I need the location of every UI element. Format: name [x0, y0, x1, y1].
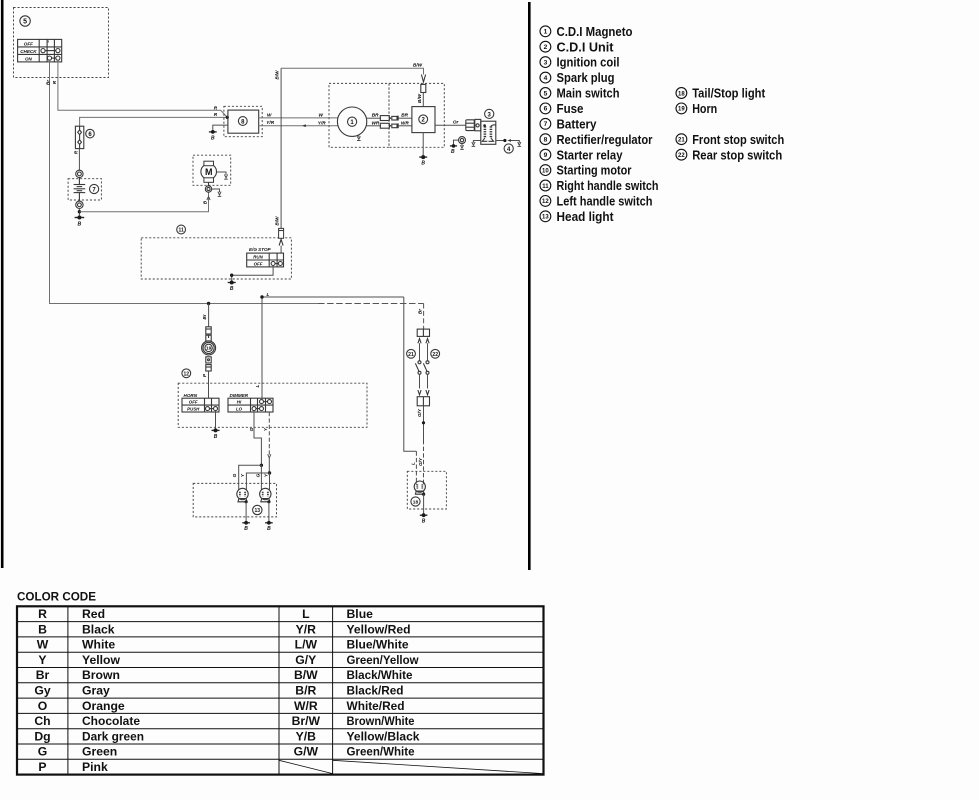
svg-text:Chocolate: Chocolate — [82, 714, 140, 728]
wire horn to switch — [208, 371, 210, 398]
svg-text:10: 10 — [542, 168, 549, 174]
svg-text:9: 9 — [544, 152, 548, 159]
wire battery to starting motor — [79, 192, 208, 212]
svg-text:BR: BR — [372, 113, 379, 118]
head light right bulb — [260, 488, 271, 523]
svg-text:Spark plug: Spark plug — [557, 70, 615, 85]
spark plug gap and hook — [496, 139, 521, 147]
svg-text:Right handle switch: Right handle switch — [557, 178, 659, 193]
svg-text:WR: WR — [372, 120, 380, 125]
svg-text:3: 3 — [544, 59, 548, 66]
wire G to left bulb — [239, 465, 262, 489]
svg-text:R: R — [73, 150, 78, 154]
wire G dimmer low output — [254, 411, 261, 466]
svg-text:Orange: Orange — [82, 699, 125, 713]
arrowhead on Y/R wire — [302, 124, 306, 127]
CDI unit U2 dashed enclosure — [389, 83, 444, 147]
svg-text:White: White — [82, 638, 115, 652]
svg-text:Or: Or — [453, 120, 460, 125]
svg-text:Black/White: Black/White — [347, 668, 413, 682]
wire L to tail light — [404, 297, 417, 451]
svg-text:Starting motor: Starting motor — [557, 163, 632, 178]
ground below CDI — [419, 155, 427, 167]
fuse F6 — [75, 126, 83, 148]
svg-text:B: B — [202, 200, 207, 204]
svg-text:Gray: Gray — [82, 684, 110, 698]
magneto ground — [357, 135, 361, 141]
junction L bus start — [260, 295, 263, 298]
svg-text:5: 5 — [544, 90, 548, 97]
ground tail light — [420, 513, 428, 524]
svg-text:Ch: Ch — [34, 714, 50, 728]
svg-text:Black/Red: Black/Red — [347, 684, 404, 698]
junction battery negative — [78, 210, 81, 213]
ground right handle switch — [228, 281, 236, 293]
svg-text:B: B — [78, 222, 82, 228]
wire W rectifier to magneto — [259, 117, 338, 119]
svg-text:Br: Br — [417, 308, 422, 314]
svg-text:Y: Y — [263, 473, 268, 477]
rectifier R8 box — [228, 110, 259, 133]
right handle switch circled 11 — [177, 225, 186, 234]
junction on G/Y wire — [422, 421, 425, 424]
arrowhead up on motor wire — [207, 197, 210, 201]
svg-text:18: 18 — [413, 500, 419, 506]
wire fuse to battery — [78, 149, 80, 171]
svg-text:L: L — [267, 292, 270, 297]
main switch circled 5 — [20, 16, 30, 26]
svg-text:B/W: B/W — [294, 668, 318, 682]
svg-text:Yellow: Yellow — [82, 653, 120, 667]
svg-text:O: O — [38, 699, 47, 713]
ground arrow right of motor connector — [212, 189, 222, 196]
connector to ignition coil — [466, 119, 481, 130]
head light left bulb — [237, 488, 248, 523]
junction Y headlight — [268, 471, 271, 474]
front stop switch circled 21 — [407, 349, 416, 358]
svg-text:Green: Green — [82, 745, 117, 759]
svg-text:3: 3 — [488, 112, 492, 118]
page left border — [1, 0, 4, 568]
tail/stop light bulb — [414, 481, 425, 515]
stop switch top connector — [417, 329, 429, 336]
svg-text:1: 1 — [544, 29, 548, 36]
ground at ring terminal lead — [450, 144, 457, 155]
ignition coil C3 — [481, 121, 496, 144]
svg-text:C.D.I Magneto: C.D.I Magneto — [557, 24, 633, 39]
coil left ground arrow — [472, 141, 481, 147]
svg-text:Y/R: Y/R — [296, 622, 317, 636]
svg-text:Y/B: Y/B — [296, 729, 317, 743]
ring connector below battery — [76, 201, 83, 208]
main switch S5 dashed enclosure — [14, 8, 109, 78]
svg-text:Fuse: Fuse — [557, 101, 584, 116]
svg-text:7: 7 — [544, 121, 548, 128]
svg-text:B/W: B/W — [274, 216, 279, 226]
svg-text:Main switch: Main switch — [557, 86, 620, 101]
front stop switch S21 — [415, 339, 421, 395]
svg-text:Green/White: Green/White — [347, 745, 415, 759]
ring connector below motor — [205, 182, 211, 192]
CDI circled 2 — [419, 115, 428, 124]
svg-text:B: B — [422, 519, 426, 525]
wire B/W engine stop drop — [280, 68, 282, 228]
svg-text:W: W — [267, 112, 272, 117]
svg-text:G/Y: G/Y — [418, 457, 423, 466]
wire R fuse to rectifier — [80, 117, 228, 126]
svg-text:Left handle switch: Left handle switch — [557, 194, 653, 209]
tail light circled 18 — [411, 497, 420, 506]
svg-text:CHECK: CHECK — [20, 49, 37, 54]
svg-text:Black: Black — [82, 622, 115, 636]
svg-text:Front stop switch: Front stop switch — [692, 132, 784, 147]
motor ground arrow right — [217, 172, 228, 179]
svg-text:4: 4 — [544, 75, 548, 82]
svg-text:Starter relay: Starter relay — [557, 147, 624, 162]
svg-text:OFF: OFF — [24, 41, 33, 46]
wire L bus — [262, 297, 404, 400]
wire CDI to ground — [422, 133, 424, 158]
svg-text:RUN: RUN — [253, 255, 263, 260]
svg-text:G: G — [255, 473, 260, 477]
wire G to right bulb — [260, 465, 262, 489]
svg-text:12: 12 — [542, 199, 549, 205]
svg-text:R: R — [38, 607, 47, 621]
rectifier circled 8 — [238, 117, 247, 126]
svg-text:G/W: G/W — [294, 745, 319, 759]
arrowhead on Y wire — [268, 454, 271, 458]
svg-text:P: P — [38, 760, 46, 774]
svg-text:6: 6 — [544, 106, 548, 113]
connector BR pair — [380, 116, 398, 121]
svg-text:Horn: Horn — [692, 101, 717, 116]
svg-text:Battery: Battery — [557, 116, 598, 131]
svg-text:Pink: Pink — [82, 760, 108, 774]
svg-text:Br: Br — [36, 668, 50, 682]
svg-text:Tail/Stop light: Tail/Stop light — [692, 86, 766, 101]
wire horn button to ground — [215, 411, 217, 431]
battery plates — [74, 178, 86, 202]
svg-text:Dg: Dg — [34, 729, 50, 743]
svg-text:Br/W: Br/W — [292, 714, 321, 728]
rear stop switch circled 22 — [431, 349, 440, 358]
svg-text:G/Y: G/Y — [417, 408, 422, 417]
wire Y to left bulb — [246, 473, 269, 490]
svg-text:22: 22 — [678, 153, 685, 159]
wire Y to junction — [268, 458, 270, 473]
stop switch bottom connector — [417, 397, 429, 406]
wire G/Y to tail light — [423, 406, 425, 440]
svg-text:Y/R: Y/R — [266, 120, 274, 125]
starting motor M10 — [201, 161, 217, 182]
svg-text:OFF: OFF — [254, 262, 263, 267]
svg-text:Brown/White: Brown/White — [347, 714, 415, 728]
svg-text:B: B — [267, 526, 271, 532]
svg-text:L: L — [302, 607, 310, 621]
connector below horn — [206, 357, 211, 371]
svg-text:C.D.I Unit: C.D.I Unit — [557, 39, 615, 54]
svg-text:11: 11 — [178, 228, 184, 234]
svg-text:WR: WR — [401, 120, 409, 125]
rectifier R8 dashed enclosure — [224, 106, 262, 136]
ground right bulb — [265, 521, 273, 532]
svg-text:W: W — [319, 113, 324, 118]
svg-text:ON: ON — [25, 56, 33, 61]
head light L13 dashed enclosure — [193, 483, 276, 517]
connector WR pair — [380, 123, 398, 128]
wire Or CDI to coil connector — [435, 124, 466, 126]
right handle switch S11 dashed enclosure — [141, 238, 291, 279]
CDI unit U2 box — [412, 107, 435, 133]
svg-text:Y: Y — [38, 653, 46, 667]
svg-text:19: 19 — [206, 346, 212, 352]
svg-text:E/G STOP: E/G STOP — [249, 247, 272, 252]
svg-text:B: B — [211, 135, 215, 141]
wire BR magneto to connector — [366, 117, 381, 119]
svg-text:COLOR CODE: COLOR CODE — [17, 591, 96, 604]
svg-text:G: G — [38, 745, 47, 759]
ring connector above battery — [76, 170, 83, 177]
connector above engine stop switch — [279, 228, 284, 253]
svg-text:Rear stop switch: Rear stop switch — [692, 147, 782, 162]
svg-text:Br: Br — [202, 313, 207, 319]
svg-text:Gy: Gy — [34, 684, 50, 698]
horn H19 — [202, 341, 216, 355]
ground left bulb — [242, 521, 250, 532]
dimmer switch table — [228, 398, 273, 412]
wire Y dimmer high output — [268, 412, 270, 456]
svg-text:Blue/White: Blue/White — [347, 638, 409, 652]
svg-text:L: L — [411, 462, 416, 465]
svg-text:Head light: Head light — [557, 209, 615, 224]
wire Y/R rectifier to magneto — [259, 125, 339, 127]
svg-text:G: G — [249, 427, 254, 431]
wire W/R magneto to connector — [366, 125, 381, 127]
ground horn button — [212, 428, 220, 440]
svg-text:Yellow/Red: Yellow/Red — [347, 622, 411, 636]
junction at stop ground bend — [230, 274, 233, 277]
svg-text:Blue: Blue — [347, 607, 374, 621]
svg-text:R: R — [52, 80, 57, 84]
svg-text:B/W: B/W — [417, 93, 422, 103]
ring terminal near coil — [454, 137, 466, 150]
svg-text:4: 4 — [507, 147, 511, 153]
wire horn feed — [208, 304, 210, 327]
svg-text:B: B — [230, 286, 234, 292]
svg-text:Rectifier/regulator: Rectifier/regulator — [557, 132, 653, 147]
ground battery — [75, 216, 85, 228]
svg-text:White/Red: White/Red — [347, 699, 405, 713]
svg-text:R: R — [214, 112, 218, 117]
arrow funnel into resistor — [421, 75, 425, 83]
svg-text:1: 1 — [350, 120, 354, 126]
svg-text:B: B — [38, 622, 47, 636]
svg-text:Y: Y — [240, 473, 245, 477]
svg-text:2: 2 — [544, 44, 548, 51]
resistor above CDI — [421, 84, 426, 92]
svg-text:19: 19 — [678, 107, 685, 113]
svg-text:Ignition coil: Ignition coil — [557, 55, 620, 70]
svg-text:Green/Yellow: Green/Yellow — [347, 653, 419, 667]
battery B7 dashed enclosure — [68, 179, 101, 200]
wire resistor to CDI — [422, 93, 424, 107]
ignition coil circled 3 — [485, 109, 494, 118]
svg-text:18: 18 — [678, 91, 685, 97]
svg-text:B: B — [421, 161, 425, 167]
starting motor M10 dashed enclosure — [193, 155, 231, 185]
left handle switch circled 12 — [182, 369, 191, 378]
svg-text:HORN: HORN — [184, 393, 198, 398]
svg-text:8: 8 — [544, 137, 548, 144]
wire engine stop to ground — [232, 266, 273, 283]
svg-text:BR: BR — [401, 113, 408, 118]
svg-text:B/W: B/W — [413, 62, 423, 67]
svg-text:P: P — [202, 373, 207, 377]
svg-text:B: B — [451, 149, 455, 155]
svg-text:Y/R: Y/R — [318, 120, 326, 125]
wire R from main switch to rectifier — [58, 60, 227, 117]
svg-text:11: 11 — [542, 184, 549, 190]
svg-text:OFF: OFF — [189, 400, 198, 405]
svg-text:Red: Red — [82, 607, 105, 621]
svg-text:B/W: B/W — [275, 70, 280, 80]
junction horn tap on Br bus — [207, 302, 210, 305]
legend list — [540, 24, 784, 224]
wire Br from main switch down long left drop — [50, 60, 319, 303]
svg-text:12: 12 — [184, 372, 190, 378]
svg-text:7: 7 — [92, 187, 96, 193]
svg-text:13: 13 — [255, 508, 261, 514]
wire battery negative — [78, 209, 80, 218]
CDI magneto M1 — [337, 107, 366, 136]
color code table — [17, 606, 544, 774]
engine stop switch table — [247, 253, 284, 267]
svg-text:L/W: L/W — [295, 638, 318, 652]
svg-text:G: G — [232, 473, 237, 477]
svg-text:Dark green: Dark green — [82, 729, 144, 743]
svg-text:DIMMER: DIMMER — [230, 393, 249, 398]
svg-text:G/Y: G/Y — [295, 653, 316, 667]
rectifier ground stub — [213, 125, 228, 132]
spark plug circled 4 — [504, 144, 513, 153]
junction at rectifier input — [226, 116, 229, 119]
wire WR connector to CDI — [399, 125, 412, 127]
ground rectifier — [209, 130, 217, 141]
svg-text:LO: LO — [236, 407, 243, 412]
svg-text:Brown: Brown — [82, 668, 120, 682]
svg-text:L: L — [255, 384, 260, 387]
svg-text:B: B — [214, 434, 218, 440]
svg-text:21: 21 — [408, 352, 414, 358]
svg-text:21: 21 — [678, 138, 685, 144]
svg-text:W/R: W/R — [294, 699, 318, 713]
main switch contact table — [18, 39, 62, 62]
svg-text:Yellow/Black: Yellow/Black — [347, 729, 420, 743]
wire BR connector to CDI — [399, 117, 412, 119]
rear stop switch S22 — [423, 339, 429, 395]
wire Y to right bulb — [269, 473, 271, 490]
page right border — [528, 2, 531, 570]
wire B/W top run — [281, 68, 423, 74]
svg-text:HI: HI — [237, 400, 242, 405]
CDI magneto M1 dashed enclosure — [329, 83, 389, 147]
wire Br bus dashed segment — [318, 303, 424, 305]
svg-text:B/R: B/R — [295, 684, 316, 698]
head light circled 13 — [253, 505, 262, 514]
svg-text:13: 13 — [542, 215, 549, 221]
svg-text:R: R — [214, 105, 218, 110]
left handle switch S12 dashed enclosure — [178, 383, 367, 427]
fuse circled 6 — [86, 129, 95, 138]
wire Br drop to stop switches — [423, 304, 425, 330]
svg-text:PUSH: PUSH — [187, 407, 200, 412]
svg-text:B: B — [244, 526, 248, 532]
svg-text:22: 22 — [432, 352, 438, 358]
connector above horn — [206, 327, 211, 341]
tail/stop light L18 dashed enclosure — [407, 471, 446, 509]
svg-text:M: M — [205, 167, 213, 177]
horn switch table — [182, 398, 219, 412]
svg-text:5: 5 — [23, 18, 27, 25]
svg-text:W: W — [37, 638, 49, 652]
battery circled 7 — [90, 184, 99, 193]
junction G headlight — [260, 464, 263, 467]
